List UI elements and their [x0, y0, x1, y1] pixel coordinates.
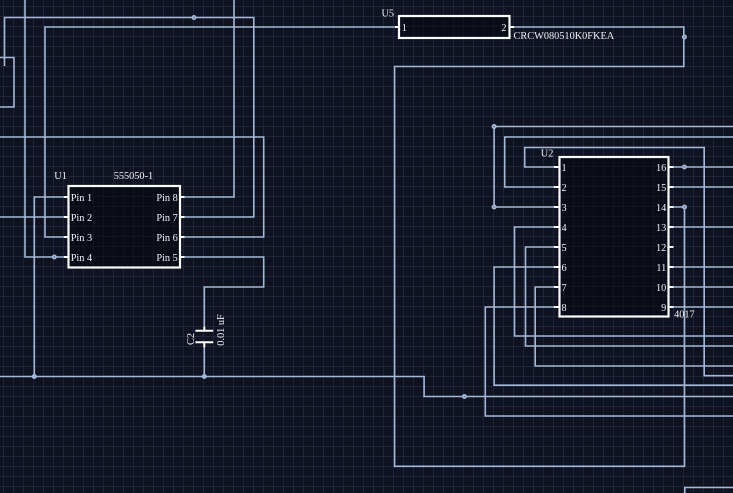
wire net N17: U2 pin5 around bottom to right edge	[526, 247, 733, 346]
wire net N1: U1 pin7 to clipped stub at left edge	[5, 18, 254, 218]
svg-text:15: 15	[656, 183, 666, 194]
junction ring N10 top corner	[492, 124, 497, 129]
wire net N15: U2 pin15 row to right edge	[674, 186, 733, 188]
svg-text:13: 13	[656, 223, 666, 234]
svg-text:Pin 4: Pin 4	[71, 253, 92, 264]
svg-text:Pin 2: Pin 2	[71, 213, 92, 224]
junction ring below U5 pin2 corner	[682, 35, 687, 40]
wire net N10: U2 pin3 rail to right edge	[494, 127, 733, 208]
junction ring U1 pin1 / bottom rail	[32, 374, 37, 379]
svg-text:U5: U5	[382, 9, 395, 20]
junction ring C2 / bottom rail	[202, 374, 207, 379]
wire C2 bottom to bottom rail	[203, 347, 205, 377]
wire bottom rail across page with jog to right edge	[0, 377, 733, 397]
wire net N5: U1 pin2 to left edge	[0, 216, 64, 218]
wire net N12: U2 pin1 over top to right, down right side	[525, 148, 733, 376]
svg-text:Pin 8: Pin 8	[156, 193, 177, 204]
svg-text:8: 8	[562, 303, 567, 314]
svg-text:4: 4	[562, 223, 567, 234]
svg-text:C2: C2	[186, 333, 197, 345]
svg-text:10: 10	[656, 283, 666, 294]
junction ring at U2 pin14	[682, 205, 687, 210]
svg-text:7: 7	[562, 283, 567, 294]
svg-text:Pin 1: Pin 1	[71, 193, 92, 204]
svg-text:CRCW080510K0FKEA: CRCW080510K0FKEA	[514, 31, 615, 42]
wire net N22: U2 pin10 row to right edge	[674, 286, 733, 288]
junction ring on N1 wire	[192, 15, 197, 20]
svg-text:14: 14	[656, 203, 666, 214]
svg-text:5: 5	[562, 243, 567, 254]
wire net N14: U2 pin16 row to right edge	[674, 166, 733, 168]
wire clipped loop at left edge (top)	[0, 58, 14, 108]
svg-text:6: 6	[562, 263, 567, 274]
wire net N2: U5 pin1 to U1 pin3	[45, 27, 395, 237]
svg-text:Pin 7: Pin 7	[156, 213, 177, 224]
wire net N13: U2 pin13 row to right edge	[674, 226, 733, 228]
svg-text:2: 2	[562, 183, 567, 194]
svg-text:Pin 5: Pin 5	[156, 253, 177, 264]
wire net N11: U2 pin2 rail to right edge	[505, 137, 733, 187]
svg-text:Pin 6: Pin 6	[156, 233, 177, 244]
svg-text:11: 11	[656, 263, 666, 274]
wire net N8: U1 pin5 to capacitor C2 top	[185, 257, 264, 327]
IC U2 4017 (16-pin)	[541, 149, 695, 321]
junction ring on U1 pin4 wire	[52, 255, 57, 260]
wire net N3: U1 pin8 to top edge	[185, 0, 235, 197]
wire net N16: U2 pin4 around bottom to right edge	[515, 227, 733, 336]
wire net N23: U2 pin9 row to right edge	[674, 306, 733, 308]
svg-text:U2: U2	[541, 149, 554, 160]
wire net N18: U2 pin7 around bottom to right edge	[535, 287, 733, 366]
wire net N19: U2 pin6 around bottom to right edge	[494, 267, 733, 385]
svg-text:9: 9	[661, 303, 666, 314]
svg-text:U1: U1	[54, 171, 67, 182]
wire net N4: U1 pin6 to left edge	[0, 137, 264, 237]
junction ring N10 at U2 pin3	[492, 205, 497, 210]
svg-text:1: 1	[402, 23, 407, 34]
wire net N20: U2 pin8 around bottom to right edge	[485, 307, 733, 416]
wire net N6: U1 pin4 to top edge	[25, 0, 64, 257]
svg-text:555050-1: 555050-1	[114, 171, 153, 182]
capacitor C2 0.01 uF	[186, 314, 227, 347]
svg-text:Pin 3: Pin 3	[71, 233, 92, 244]
junction ring on U2 pin16 wire	[682, 165, 687, 170]
svg-text:3: 3	[562, 203, 567, 214]
svg-text:12: 12	[656, 243, 666, 254]
svg-text:4017: 4017	[674, 310, 695, 321]
wire net N7: U1 pin1 down to bottom rail	[34, 197, 64, 377]
svg-text:0.01 uF: 0.01 uF	[216, 314, 227, 346]
wire net N21: U2 pin11 row to right edge	[674, 266, 733, 268]
svg-text:2: 2	[501, 23, 506, 34]
wire net N9: U5 pin2 long route to U2 pin14	[395, 27, 685, 466]
IC U1 555050-1 (8-pin)	[54, 171, 184, 268]
wire clipped corner at bottom-right	[685, 488, 733, 493]
svg-text:1: 1	[562, 163, 567, 174]
resistor U5 CRCW080510K0FKEA	[382, 9, 615, 43]
svg-text:16: 16	[656, 163, 666, 174]
junction ring on bottom rail jog	[462, 394, 467, 399]
